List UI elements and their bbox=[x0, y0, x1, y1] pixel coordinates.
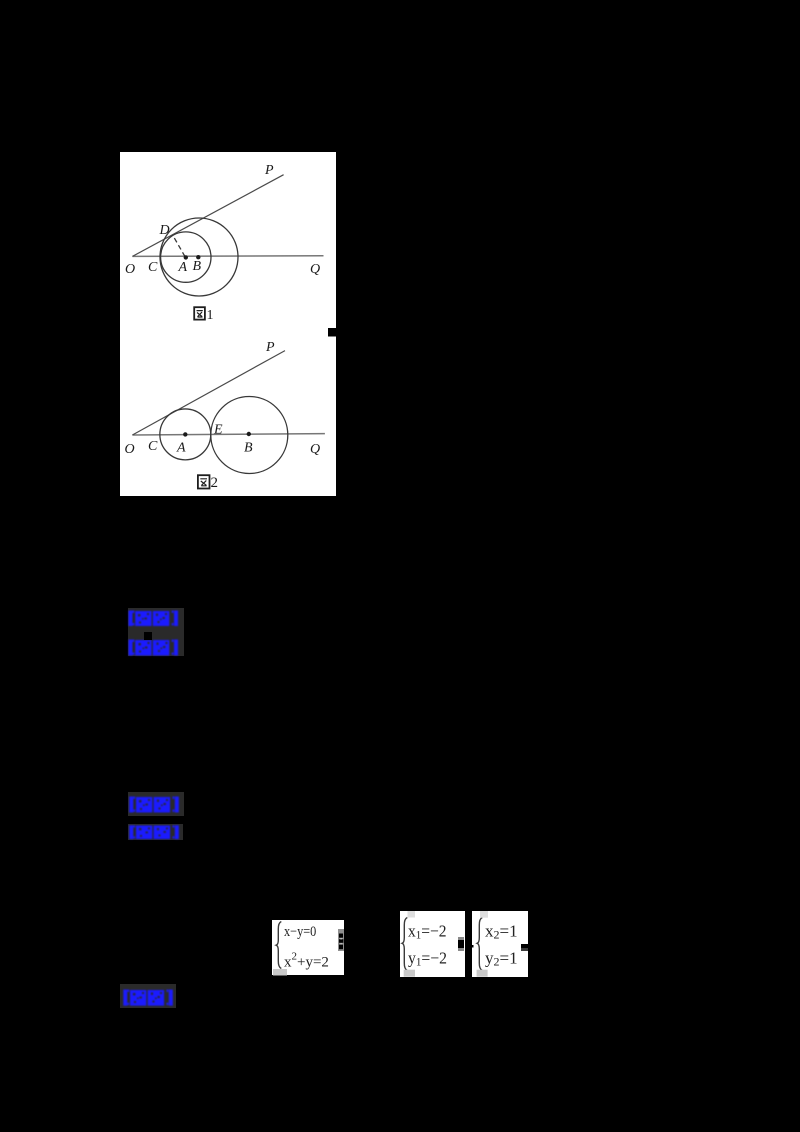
svg-text:B: B bbox=[244, 440, 253, 455]
dashed radius AD fig1 bbox=[173, 234, 186, 256]
small black square between blue lines bbox=[144, 632, 152, 640]
blue block 1: 【分析】/【解答】 bbox=[128, 608, 184, 656]
svg-text:D: D bbox=[159, 223, 170, 238]
blue block 2a: 【分析】 bbox=[128, 792, 184, 817]
svg-text:y1=−2: y1=−2 bbox=[408, 949, 447, 969]
tiny black dot on left edge bbox=[472, 945, 474, 948]
svg-text:2: 2 bbox=[211, 474, 219, 490]
brace bbox=[402, 918, 407, 971]
circle B fig1 bbox=[160, 218, 238, 296]
svg-text:C: C bbox=[148, 439, 158, 454]
wire: figure1 line OQ bbox=[132, 254, 323, 257]
equation box 1 bbox=[272, 920, 344, 976]
wire: figure2 ray OP bbox=[132, 350, 285, 434]
svg-text:x2=1: x2=1 bbox=[485, 922, 518, 942]
grey artifact bottom-left bbox=[273, 969, 287, 976]
svg-text:A: A bbox=[176, 440, 186, 455]
wire: figure1 ray OP bbox=[132, 174, 283, 256]
svg-text:E: E bbox=[213, 422, 223, 437]
comma glyph at right edge of box2 bbox=[458, 937, 464, 940]
blue block 3: 【点评】 bbox=[120, 984, 176, 1008]
text 【点评】 bbox=[123, 990, 173, 1006]
black dash at right edge of box3 bbox=[521, 944, 528, 948]
equation box 3 bbox=[472, 911, 528, 977]
svg-text:A: A bbox=[178, 259, 188, 274]
svg-text:y2=1: y2=1 bbox=[485, 949, 518, 969]
black notch on right edge bbox=[328, 328, 336, 337]
equation box 2 bbox=[400, 911, 465, 977]
circle B fig2 bbox=[211, 396, 288, 473]
svg-text:1: 1 bbox=[207, 307, 214, 322]
svg-text:C: C bbox=[148, 260, 158, 275]
text 【分析】 line1 bbox=[129, 611, 179, 627]
brace bbox=[276, 921, 281, 968]
dot A fig1 bbox=[184, 255, 188, 259]
svg-text:O: O bbox=[125, 261, 135, 276]
text 【解答】 line2 bbox=[129, 640, 179, 656]
circle A fig1 bbox=[161, 231, 211, 281]
svg-text:P: P bbox=[264, 163, 274, 178]
svg-text:x2+y=2: x2+y=2 bbox=[284, 950, 329, 970]
svg-text:O: O bbox=[125, 442, 135, 457]
brace bbox=[477, 918, 482, 971]
svg-text:Q: Q bbox=[310, 262, 320, 277]
text 【分析】 bbox=[129, 796, 179, 812]
dot A fig2 bbox=[183, 432, 187, 436]
dot B fig2 bbox=[247, 431, 251, 435]
svg-text:x1=−2: x1=−2 bbox=[408, 922, 447, 942]
text 【解答】 bbox=[129, 825, 179, 839]
grey column with black glyph right of box1 bbox=[338, 929, 344, 951]
circle A fig2 bbox=[160, 408, 211, 459]
dot B fig1 bbox=[196, 255, 200, 259]
figure panel (white) bbox=[120, 152, 336, 497]
caption 图1 bbox=[194, 307, 205, 319]
wire: figure2 line OQ bbox=[132, 433, 325, 434]
svg-text:Q: Q bbox=[310, 442, 320, 457]
artifacts bbox=[480, 911, 488, 918]
svg-text:P: P bbox=[265, 340, 275, 355]
caption 图2 bbox=[198, 475, 210, 488]
blue block 2b: 【解答】 bbox=[128, 824, 183, 840]
svg-text:x−y=0: x−y=0 bbox=[284, 924, 316, 940]
svg-text:B: B bbox=[193, 259, 202, 274]
artifacts bbox=[408, 911, 416, 918]
